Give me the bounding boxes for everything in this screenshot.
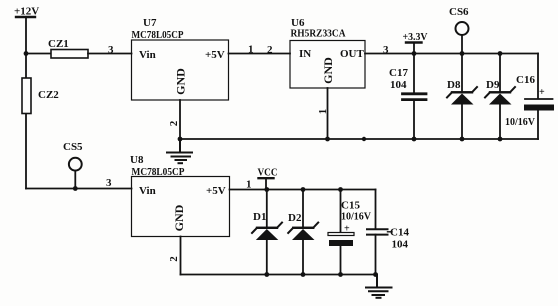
svg-text:3: 3 [383, 44, 389, 56]
junction C17 at rail [412, 137, 417, 142]
junction D1 at rail [264, 272, 269, 277]
connector CS6 [449, 6, 469, 54]
svg-text:MC78L05CP: MC78L05CP [132, 29, 184, 41]
ground symbol (top section) [167, 139, 192, 163]
wire U7 pin1 output to U6 pin2 input [229, 53, 291, 55]
svg-text:104: 104 [392, 239, 409, 251]
svg-text:+5V: +5V [205, 49, 225, 61]
wire C17 top lead [413, 54, 415, 94]
capacitor C17 104 [389, 67, 426, 100]
svg-text:RH5RZ33CA: RH5RZ33CA [291, 28, 346, 40]
svg-text:D1: D1 [253, 211, 266, 223]
wire C16 bottom lead [537, 111, 539, 140]
fuse CZ2 [22, 78, 59, 114]
svg-text:1: 1 [246, 179, 252, 191]
wire D2 top lead [302, 190, 304, 228]
svg-text:1: 1 [317, 109, 329, 115]
wire U6 pin3 output to +3.3V rail [365, 53, 538, 55]
junction D8 at rail [460, 137, 465, 142]
svg-text:MC78L05CP: MC78L05CP [132, 166, 185, 178]
wire C15 bottom lead [340, 246, 342, 275]
svg-text:Vin: Vin [139, 49, 156, 61]
wire C17 bottom lead [413, 100, 415, 139]
wire D9 top lead [499, 54, 501, 93]
power +3.3V [403, 31, 428, 54]
svg-text:U8: U8 [130, 154, 144, 166]
svg-text:C15: C15 [341, 200, 360, 212]
svg-text:10/16V: 10/16V [341, 212, 372, 223]
junction C15 at rail [338, 272, 343, 277]
svg-text:CS6: CS6 [449, 6, 469, 18]
wire D8 bottom lead [461, 104, 463, 139]
svg-text:U7: U7 [143, 17, 157, 29]
wire CZ1 to U7 pin 3 [88, 53, 132, 55]
junction U7 GND at rail [178, 137, 183, 142]
svg-text:3: 3 [106, 177, 112, 189]
svg-text:2: 2 [267, 44, 273, 56]
svg-text:C17: C17 [389, 67, 408, 79]
wire U8 pin2 GND down [180, 237, 182, 275]
svg-text:104: 104 [390, 79, 407, 91]
regulator U7 MC78L05CP [132, 17, 229, 100]
wire C15 top lead [340, 190, 342, 233]
junction D2 top node [301, 187, 306, 192]
wire +12V vertical down left side [25, 17, 27, 189]
wire D1 top lead [266, 190, 268, 228]
wire +12V to U8 pin 3 [26, 188, 132, 190]
svg-text:D9: D9 [486, 79, 500, 91]
wire U7 pin2 GND down [179, 100, 181, 139]
junction C15 top node [338, 187, 343, 192]
junction U6 GND at rail [325, 137, 330, 142]
wire C14 top lead [375, 190, 377, 230]
ground symbol (bottom section) [366, 275, 392, 298]
svg-text:+12V: +12V [14, 6, 39, 18]
wire D1 bottom lead [266, 240, 268, 275]
power +12V [14, 6, 39, 18]
svg-text:+5V: +5V [206, 185, 226, 197]
junction node +12V rail [24, 51, 29, 56]
wire ground rail (top section) [180, 138, 538, 140]
wire U8 pin1 output to VCC rail [230, 189, 376, 191]
svg-text:VCC: VCC [258, 167, 278, 179]
svg-text:D2: D2 [288, 212, 302, 224]
fuse CZ1 [48, 38, 88, 58]
wire +12V node to CZ1 [26, 53, 52, 55]
regulator U6 RH5RZ33CA [290, 17, 365, 88]
zener diode D2 [288, 212, 318, 240]
junction +3.3V / C17 node [412, 51, 417, 56]
svg-text:OUT: OUT [340, 48, 365, 60]
wire D2 bottom lead [302, 240, 304, 275]
svg-text:CZ2: CZ2 [38, 89, 59, 101]
zener diode D8 [447, 79, 477, 105]
svg-text:+: + [539, 87, 545, 98]
junction D9 top node [498, 51, 503, 56]
svg-text:2: 2 [168, 120, 180, 126]
svg-text:+3.3V: +3.3V [403, 31, 428, 43]
power VCC [258, 167, 278, 190]
capacitor C14 104 [367, 227, 409, 251]
wire D9 bottom lead [499, 104, 501, 139]
svg-text:C16: C16 [516, 74, 535, 86]
junction D2 at rail [301, 272, 306, 277]
wire D8 top lead [461, 54, 463, 93]
svg-text:C14: C14 [390, 227, 409, 239]
junction CS6 / D8 node [460, 51, 465, 56]
svg-text:CZ1: CZ1 [48, 38, 69, 50]
zener diode D1 [252, 211, 282, 240]
svg-text:IN: IN [299, 48, 311, 60]
svg-text:Vin: Vin [139, 185, 156, 197]
electrolytic capacitor C15 10/16V [328, 200, 372, 247]
wire C16 top lead [537, 54, 539, 99]
wire ground rail (bottom section) [181, 274, 376, 276]
wire U6 pin1 GND down [327, 88, 329, 139]
zener diode D9 [485, 79, 515, 105]
junction C14 / ground at rail [373, 272, 378, 277]
svg-text:10/16V: 10/16V [505, 117, 536, 128]
electrolytic capacitor C16 10/16V [505, 74, 554, 128]
svg-text:GND: GND [174, 68, 188, 95]
junction VCC / D1 node [264, 187, 269, 192]
junction stray dot on rail [362, 137, 366, 141]
svg-text:GND: GND [321, 57, 335, 84]
svg-text:D8: D8 [447, 79, 461, 91]
junction D9 at rail [498, 137, 503, 142]
svg-text:GND: GND [172, 204, 186, 231]
connector CS5 [63, 141, 83, 189]
junction CS5 node [73, 186, 78, 191]
svg-text:2: 2 [168, 256, 180, 262]
svg-text:1: 1 [248, 44, 254, 56]
svg-text:3: 3 [108, 44, 114, 56]
regulator U8 MC78L05CP [130, 154, 230, 237]
wire C14 bottom lead [375, 235, 377, 275]
svg-text:CS5: CS5 [63, 141, 83, 153]
